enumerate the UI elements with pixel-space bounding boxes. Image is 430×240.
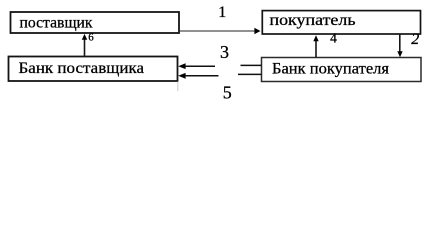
svg-text:1: 1 xyxy=(218,4,226,21)
scan artifact: faint border tail below Банк поставщика right edge xyxy=(177,82,179,92)
svg-text:покупатель: покупатель xyxy=(270,12,356,29)
wire: line 5 left segment with arrowhead (into Банк поставщика) xyxy=(178,73,185,79)
box: поставщик (supplier) xyxy=(11,12,180,33)
wire: line 3 left segment with arrowhead (into Банк поставщика) xyxy=(178,63,185,69)
wire: line 3 right segment xyxy=(241,64,262,66)
svg-text:2: 2 xyxy=(411,31,419,48)
svg-text:3: 3 xyxy=(220,42,229,62)
wire: arrow 1 (поставщик -> покупатель) xyxy=(180,30,256,32)
svg-text:5: 5 xyxy=(223,82,232,101)
wire: arrow 6 (Банк поставщика -> поставщик, up) xyxy=(84,39,86,56)
svg-text:6: 6 xyxy=(88,32,94,44)
svg-text:4: 4 xyxy=(330,31,337,46)
wire: arrow 2 (покупатель -> Банк покупателя, down) xyxy=(399,34,401,52)
wire: arrow 4 (Банк покупателя -> покупатель, up) xyxy=(315,41,317,58)
box: Банк покупателя (buyer's bank) xyxy=(262,58,422,82)
svg-text:Банк покупателя: Банк покупателя xyxy=(272,60,390,77)
box: покупатель (buyer) xyxy=(262,11,420,34)
svg-text:поставщик: поставщик xyxy=(20,15,93,32)
box: Банк поставщика (supplier's bank) xyxy=(9,57,178,82)
wire: line 5 right segment xyxy=(238,73,262,75)
svg-text:Банк поставщика: Банк поставщика xyxy=(19,60,145,77)
